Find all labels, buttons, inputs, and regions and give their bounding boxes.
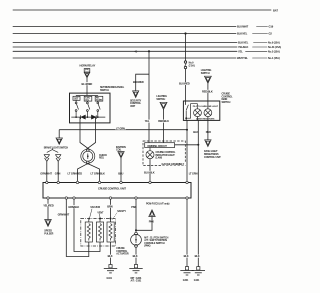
label RED/BLK right	[202, 89, 215, 93]
wire BLK safety to ground	[110, 242, 112, 265]
cruise indicator lamp	[146, 148, 154, 182]
wire LT GRN main switch to unit	[185, 119, 188, 182]
label BLU/RED	[179, 82, 192, 86]
label YEL	[144, 119, 150, 123]
switch contact SET	[75, 100, 77, 102]
cruise control unit box	[43, 183, 191, 199]
svg-text:UNIT: UNIT	[130, 105, 136, 108]
svg-text:GRN/WHT: GRN/WHT	[40, 171, 52, 175]
svg-text:GRN/BLK: GRN/BLK	[68, 205, 79, 209]
svg-text:BLK/YEL: BLK/YEL	[237, 32, 248, 36]
svg-text:G2: G2	[269, 32, 273, 36]
wire BLU/RED horn relay to switch	[86, 78, 88, 93]
fuse No.9 (7.5A)	[184, 61, 186, 63]
label LT GRN	[116, 126, 126, 130]
wire BLU/RED main switch feed	[185, 34, 187, 61]
connector from ignition coil	[118, 152, 124, 158]
node dots on valve common	[99, 218, 101, 220]
wire internal feed bus	[76, 93, 98, 96]
dimming circuit box	[145, 143, 175, 148]
wire bus BLK/YEL No.9	[13, 42, 237, 44]
connector pair right	[55, 155, 61, 182]
wire diode bus	[71, 116, 105, 118]
svg-text:HORN RELAY: HORN RELAY	[80, 64, 96, 68]
connector to security control unit	[133, 91, 139, 98]
svg-text:SWITCH: SWITCH	[100, 89, 109, 92]
svg-text:CRUISE CONTROL UNIT: CRUISE CONTROL UNIT	[98, 186, 126, 190]
wire BLU	[120, 158, 122, 181]
wire dimming to BLK junction	[175, 144, 199, 146]
label BRN	[107, 204, 114, 208]
svg-text:BLK: BLK	[184, 254, 189, 258]
svg-text:BLU/WHT: BLU/WHT	[237, 25, 249, 29]
svg-text:BLK: BLK	[133, 254, 138, 258]
svg-text:CEL: CEL	[85, 100, 90, 102]
wire GRN/WHT to vacuum valve	[66, 199, 89, 256]
svg-text:BLU: BLU	[118, 171, 123, 175]
connector brake light switch	[56, 138, 62, 144]
wire GRN/BLK to vent valve	[74, 199, 100, 251]
svg-text:A/T : G101: A/T : G101	[131, 280, 142, 283]
ground clutch switch	[129, 265, 142, 273]
label BLK clutch	[132, 254, 139, 258]
svg-text:SWITCH: SWITCH	[222, 101, 231, 104]
wire PNK branch to PGM-FI ECU	[136, 217, 152, 231]
svg-text:BRN: BRN	[107, 204, 113, 208]
svg-text:ACTUATOR: ACTUATOR	[116, 253, 129, 256]
node switch output	[185, 117, 187, 119]
wire LT GRN/BLK to unit	[88, 164, 99, 182]
node LT GRN junction	[186, 129, 188, 131]
svg-text:G401: G401	[183, 279, 189, 282]
svg-text:GRN: GRN	[55, 171, 61, 175]
switch contact CANCEL	[86, 100, 88, 103]
check connector circle	[81, 149, 95, 165]
svg-text:LT GRN/RED: LT GRN/RED	[68, 171, 83, 175]
clutch switch circle	[131, 232, 142, 247]
svg-text:COIL: COIL	[116, 149, 122, 152]
svg-text:RED: RED	[206, 130, 211, 134]
svg-text:BLK/YEL: BLK/YEL	[238, 41, 249, 45]
svg-text:SWITCH: SWITCH	[201, 72, 210, 75]
svg-text:BLU/RED: BLU/RED	[82, 82, 93, 86]
node junction on BLK line	[197, 144, 199, 146]
svg-text:PNK: PNK	[131, 205, 136, 209]
node junction on BLK/YEL line	[184, 32, 186, 34]
wire bus BLU/WHT	[13, 26, 236, 28]
wire bus BLK/YEL G2	[13, 33, 236, 35]
node dots on diode bus	[75, 116, 77, 118]
connector to dash brightness controller	[205, 140, 211, 147]
illumination lamp	[204, 109, 212, 117]
svg-text:CONTROL UNIT: CONTROL UNIT	[204, 156, 221, 159]
wire BLK/RED security branch	[136, 74, 149, 91]
connector to speed pulser	[45, 220, 52, 227]
svg-text:BLK/RED: BLK/RED	[133, 80, 144, 84]
svg-text:PGM-FI ECU (A/T only): PGM-FI ECU (A/T only)	[146, 202, 170, 205]
svg-text:PNK: PNK	[149, 219, 154, 223]
svg-text:SUME: SUME	[96, 100, 103, 102]
wire LT GRN to brake light switch	[58, 130, 60, 138]
unit top terminals	[46, 181, 189, 183]
svg-text:No.1 (15A): No.1 (15A)	[268, 56, 280, 60]
label BLK unit	[183, 254, 190, 258]
switch block SET	[73, 96, 80, 100]
wire bus YEL/BLK No.31	[13, 46, 237, 48]
svg-text:GAUGE ASSEMBLY: GAUGE ASSEMBLY	[162, 162, 185, 166]
wire switch output left	[80, 117, 89, 149]
wire YEL drop	[148, 51, 150, 142]
label RED/BLK	[158, 119, 171, 123]
label BLK main switch	[194, 254, 201, 258]
label BLU/RED horn wire	[81, 82, 94, 86]
svg-text:G101: G101	[194, 279, 200, 282]
brake light switch contacts	[47, 148, 58, 152]
svg-text:BLK: BLK	[193, 130, 198, 134]
gauge assembly dashed box	[143, 141, 185, 166]
connector from lighting switch right	[205, 76, 212, 83]
solenoid vacuum valve	[85, 222, 92, 242]
svg-text:BLK: BLK	[195, 254, 200, 258]
svg-text:RES.: RES.	[99, 157, 105, 160]
svg-text:LT GRN: LT GRN	[116, 126, 125, 130]
svg-text:VENT: VENT	[97, 211, 104, 214]
svg-text:G101: G101	[107, 277, 113, 280]
svg-text:YEL/BLK: YEL/BLK	[238, 45, 249, 49]
switch block RESUME	[95, 96, 103, 101]
svg-text:BRAKE LIGHT SWITCH: BRAKE LIGHT SWITCH	[44, 146, 69, 149]
node PNK branch	[135, 229, 137, 231]
actuator dashed box	[81, 219, 116, 247]
connector from lighting switch left	[160, 102, 167, 109]
svg-text:(1.4W): (1.4W)	[156, 157, 163, 160]
svg-text:ILLUMI LIGHT: ILLUMI LIGHT	[204, 106, 218, 108]
connector from horn relay	[84, 69, 90, 78]
svg-text:RED/BLK: RED/BLK	[158, 119, 169, 123]
svg-text:YEL: YEL	[145, 119, 150, 123]
svg-text:WHT/YEL: WHT/YEL	[237, 56, 248, 60]
node junction on YEL line	[148, 50, 150, 52]
diode D2	[92, 115, 97, 119]
unit bottom terminals	[47, 197, 188, 199]
ground G101 main switch	[192, 267, 205, 275]
ground G401	[180, 267, 193, 275]
switch box SET/RESUME/CANCEL	[70, 93, 111, 123]
svg-text:YEL: YEL	[238, 50, 243, 54]
ground G101 actuator	[104, 265, 117, 273]
wire RED/BLK to main switch	[207, 83, 209, 108]
svg-text:LT GRN/BLK: LT GRN/BLK	[91, 171, 106, 175]
label GRN/BLK	[68, 205, 80, 209]
solenoid vent valve	[96, 222, 103, 242]
svg-text:BLK: BLK	[108, 254, 113, 258]
svg-text:RED/BLK: RED/BLK	[202, 89, 213, 93]
svg-text:SAFETY: SAFETY	[117, 210, 126, 213]
wire bus YEL No.5	[13, 50, 237, 52]
main switch contact	[186, 104, 197, 119]
svg-text:BAT: BAT	[273, 8, 278, 12]
svg-text:BLU/RED: BLU/RED	[179, 82, 190, 86]
wire RED from illumination light	[207, 117, 209, 140]
solenoid safety valve	[107, 222, 114, 242]
diode D1	[81, 115, 86, 119]
wire LT GRN horizontal	[59, 129, 187, 131]
wire BLK from pilot light	[197, 117, 200, 267]
switch block CANCEL	[84, 96, 92, 101]
svg-text:No.9 (15A): No.9 (15A)	[268, 41, 280, 45]
wire LT GRN/RED to unit	[78, 164, 88, 182]
pilot light lamp	[194, 109, 202, 117]
svg-text:G19: G19	[269, 25, 274, 29]
svg-text:DIMMING CIRCUIT: DIMMING CIRCUIT	[148, 145, 168, 148]
wire bus BAT	[13, 9, 271, 11]
svg-text:GRN/WHT: GRN/WHT	[58, 213, 70, 217]
svg-text:(PNK): (PNK)	[144, 245, 150, 248]
svg-text:No.31 (15A): No.31 (15A)	[268, 45, 281, 49]
wire RED/BLK to dimming circuit	[163, 110, 165, 143]
label GAUGE ASSEMBLY	[161, 162, 187, 166]
connector pair left	[44, 155, 50, 182]
wire BLK clutch to ground	[135, 247, 137, 264]
label YEL/RED	[43, 203, 54, 207]
wire bus WHT/YEL No.1	[13, 57, 236, 59]
wire switch output right	[86, 117, 95, 149]
wire BLK unit to ground G401	[186, 199, 188, 266]
wire BRN to safety valve	[110, 199, 112, 222]
svg-text:YEL/RED: YEL/RED	[43, 203, 54, 207]
svg-text:No.5 (15A): No.5 (15A)	[268, 50, 280, 54]
svg-text:BLU/BLK: BLU/BLK	[144, 170, 155, 174]
svg-text:(7.5A): (7.5A)	[189, 65, 195, 68]
svg-text:DASH RESISTORS: DASH RESISTORS	[196, 118, 215, 121]
label BLK safety	[107, 254, 114, 258]
wire vent valve stub	[89, 219, 100, 223]
svg-text:PULSER: PULSER	[44, 232, 53, 235]
svg-text:SWITCH: SWITCH	[156, 98, 165, 101]
switch contact RESUME	[97, 100, 99, 103]
wire PNK clutch switch	[135, 199, 137, 232]
main switch box	[183, 101, 219, 120]
wire YEL/RED to speed pulser	[47, 199, 49, 219]
svg-text:SET: SET	[74, 97, 79, 100]
svg-text:LT GRN: LT GRN	[189, 171, 198, 175]
connector to PGM-FI ECU	[149, 210, 155, 217]
label BLU/BLK	[144, 170, 156, 174]
